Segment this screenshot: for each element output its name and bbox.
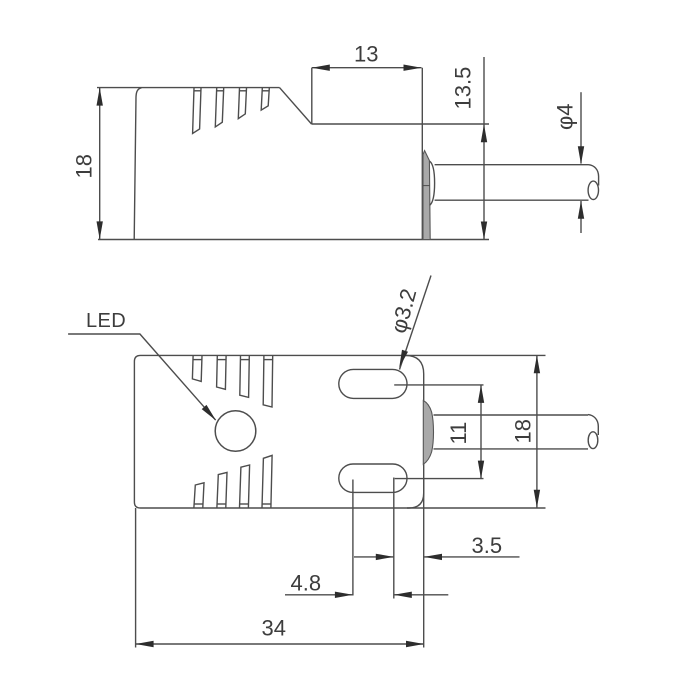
svg-text:3.5: 3.5: [472, 533, 503, 558]
svg-text:φ4: φ4: [553, 103, 578, 130]
svg-text:13: 13: [354, 42, 378, 67]
svg-text:φ3.2: φ3.2: [386, 286, 422, 336]
svg-text:11: 11: [446, 422, 471, 445]
svg-text:34: 34: [262, 616, 286, 641]
svg-text:18: 18: [72, 154, 97, 178]
svg-text:4.8: 4.8: [291, 571, 322, 596]
svg-text:13.5: 13.5: [451, 67, 476, 110]
svg-text:LED: LED: [86, 310, 126, 332]
svg-text:18: 18: [511, 419, 536, 443]
